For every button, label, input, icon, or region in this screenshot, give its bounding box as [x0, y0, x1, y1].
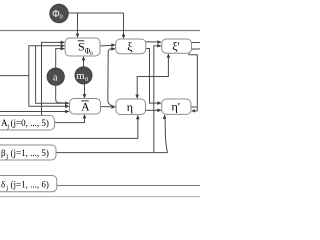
svg-text:(j=1, ..., 5): (j=1, ..., 5)	[11, 148, 49, 158]
wire: V1 bottom into Abar input2	[29, 105, 66, 108]
svg-text:j: j	[5, 184, 8, 191]
wire: phi0 to S and xi tops	[68, 12, 124, 14]
svg-text:δ: δ	[1, 179, 5, 189]
node m0 circle	[75, 67, 92, 84]
node phi0 circle	[50, 4, 69, 23]
wire: Vc from beta_j line end up into eta' bottom	[165, 119, 168, 153]
wire: left-edge line y138.4 into eta bottom	[0, 119, 138, 139]
wire: eta' second right stub	[191, 106, 197, 108]
svg-text:ξ: ξ	[127, 39, 133, 53]
svg-text:0: 0	[85, 76, 88, 83]
wire: S right output to xi input1	[100, 44, 112, 47]
wire: Aj output right then up into Abar bottom	[55, 118, 85, 123]
svg-text:0: 0	[60, 14, 63, 21]
svg-text:η: η	[127, 100, 133, 114]
box beta_j	[0, 145, 56, 160]
svg-text:A: A	[81, 102, 90, 114]
wire: top horizontal rule	[0, 30, 200, 32]
wire: hanging corner feeding S input1, V3 down into Aj top	[42, 42, 62, 115]
svg-text:m: m	[76, 71, 84, 82]
wire: xi to xi' input1	[146, 41, 158, 43]
svg-text:j: j	[5, 153, 8, 160]
wire: xi' bottom stub loop down right side into eta' right edge	[189, 53, 197, 111]
box xi'	[162, 39, 192, 53]
box xi	[116, 39, 146, 54]
svg-text:η': η'	[172, 99, 180, 113]
svg-text:0: 0	[90, 51, 93, 57]
wire: xi second output down Va to eta' input1	[146, 49, 158, 104]
svg-text:j: j	[6, 123, 9, 130]
wire: Abar right output to eta input1	[101, 106, 113, 108]
wire: eta to eta' input2	[146, 109, 159, 111]
wire: Vb from beta_j line up to xi' input2	[154, 46, 158, 153]
svg-text:Φ: Φ	[52, 9, 59, 20]
svg-text:(j=0, ..., 5): (j=0, ..., 5)	[11, 118, 49, 128]
wire: a circle down to Abar input1	[56, 84, 66, 103]
wire: m0 down to Abar top	[84, 84, 86, 95]
wire: xi' right outputs to image edge	[192, 42, 201, 44]
box Sbar_phi0	[65, 38, 100, 56]
wire: T-branch y76.5 left arm down into eta top	[137, 77, 154, 96]
wire: T-branch y76.5 right arm up into xi' bottom	[154, 57, 169, 76]
wire: beta_j output line	[56, 152, 168, 154]
node a circle	[47, 68, 64, 85]
svg-text:(j=1, ..., 6): (j=1, ..., 6)	[11, 179, 49, 189]
wire: m0 up to S bottom	[83, 60, 85, 67]
wire: vertical x108 curve, top into xi input2, bottom into eta input1	[108, 49, 113, 106]
wire: V2 hanging from S input2 line, down to Abar input1	[36, 46, 66, 103]
wire: bottom faint rule	[0, 196, 200, 198]
wire: left-edge line y75.6 feeding V1	[0, 75, 29, 77]
svg-text:a: a	[53, 73, 58, 84]
box eta	[116, 99, 146, 115]
box Aj	[0, 116, 55, 131]
wire: left-edge line y111.5 into Abar input3	[0, 111, 66, 113]
box eta'	[162, 99, 191, 114]
wire: bottom delta_j output line	[56, 185, 200, 187]
wire: V1 up to S input2	[29, 46, 62, 106]
svg-text:ξ': ξ'	[172, 39, 180, 53]
box Abar	[70, 99, 101, 115]
wire: a circle up to S input3	[56, 49, 62, 70]
box delta_j	[0, 176, 57, 192]
